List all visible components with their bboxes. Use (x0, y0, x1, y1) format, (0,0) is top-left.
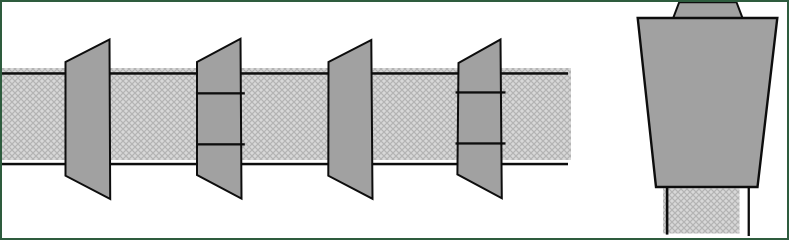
blade 2 (197, 39, 242, 199)
vertical shaft right line (748, 187, 750, 236)
funnel body (638, 18, 778, 187)
blade 2 divider upper (196, 92, 245, 94)
blade 2 divider lower (196, 143, 245, 145)
blade 1 (66, 40, 111, 200)
shaft bottom line (2, 163, 568, 166)
blade 4 divider upper (456, 91, 506, 93)
shaft top line (2, 72, 568, 75)
blade 4 divider lower (456, 142, 506, 144)
vertical shaft left line (666, 188, 669, 235)
vertical shaft hatch below funnel (663, 189, 740, 234)
blade 4 (457, 40, 501, 199)
knob on funnel top (673, 2, 743, 18)
horizontal shaft hatch band (2, 68, 571, 160)
blade 3 (328, 40, 372, 199)
